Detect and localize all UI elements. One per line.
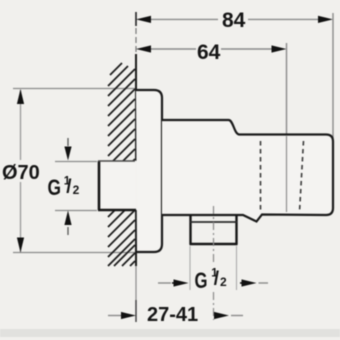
outlet G1/2 left arrow: [174, 279, 189, 286]
svg-text:64: 64: [197, 41, 221, 64]
outlet G1/2 dimension dash left: [158, 282, 171, 284]
inlet pipe bottom edge: [98, 209, 136, 211]
wall hatching: [108, 63, 135, 266]
svg-text:2: 2: [73, 183, 80, 197]
dimension 84 extension line right: [332, 13, 334, 138]
outlet pipe right edge: [235, 215, 237, 245]
inlet pipe top edge: [98, 160, 135, 162]
outlet pipe bottom edge: [190, 243, 238, 245]
thread G1/2 wall dimension dash bottom: [67, 227, 69, 235]
hidden socket line right: [300, 141, 304, 212]
wall line lower extension: [135, 266, 137, 300]
svg-text:/: /: [214, 269, 220, 290]
svg-text:/: /: [66, 177, 72, 198]
diameter 70 extension line top: [13, 88, 135, 90]
dimension 64 extension line: [286, 43, 288, 134]
svg-text:2: 2: [220, 275, 227, 289]
svg-text:84: 84: [222, 9, 246, 32]
dimension 27-41 dash left: [108, 315, 121, 317]
thread G1/2 wall extension top: [55, 161, 97, 163]
inlet pipe body: [98, 161, 136, 211]
flange (escutcheon): [136, 90, 162, 252]
dimension 84 extension line left (wall line upper dashes): [135, 12, 137, 26]
wall surface line: [135, 54, 137, 161]
svg-text:G: G: [48, 175, 62, 200]
svg-text:27-41: 27-41: [147, 304, 198, 326]
dimension 64 right arrow: [272, 45, 287, 52]
body tube outline: [162, 120, 333, 222]
thread G1/2 wall bottom arrow: [64, 211, 71, 226]
diameter 70 extension line bottom: [13, 252, 135, 254]
outlet pipe collar line: [190, 221, 237, 223]
dimension 27-41 right arrow: [214, 312, 229, 319]
svg-text:Ø70: Ø70: [2, 162, 40, 184]
outlet G1/2 dimension dash right: [259, 282, 269, 284]
diameter 70 top arrow: [17, 89, 24, 104]
diameter 70 dimension line: [20, 90, 22, 252]
inlet pipe left edge: [98, 161, 101, 210]
outlet G1/2 right arrow: [242, 279, 257, 286]
dimension 64 line: [150, 48, 196, 50]
svg-text:G: G: [195, 268, 208, 293]
dimension 64 centre line inside body: [286, 136, 288, 212]
outlet pipe left edge: [189, 215, 191, 245]
dimension 64 left arrow: [136, 45, 151, 52]
diameter 70 text: [0, 160, 40, 182]
diameter 70 bottom arrow: [17, 238, 24, 253]
dimension 84 right arrow: [318, 16, 333, 23]
outlet extension line left: [189, 246, 191, 290]
hidden socket line left: [260, 141, 262, 212]
outlet centre line: [213, 206, 215, 264]
outlet G1/2 label: [195, 268, 228, 294]
outlet extension line right: [236, 246, 238, 290]
thread G1/2 wall extension bottom: [55, 210, 97, 212]
thread G1/2 wall label: [48, 175, 80, 200]
dimension 27-41 dash right: [231, 315, 243, 317]
dimension 27-41 extension left: [135, 300, 137, 322]
thread G1/2 wall top arrow: [64, 147, 71, 161]
dimension 84 line: [150, 18, 218, 20]
dimension 27-41 left arrow: [121, 312, 136, 319]
thread G1/2 wall dimension dash top: [67, 138, 69, 146]
dimension 84 left arrow: [136, 16, 151, 23]
bottom scan smudge: [0, 329, 340, 337]
